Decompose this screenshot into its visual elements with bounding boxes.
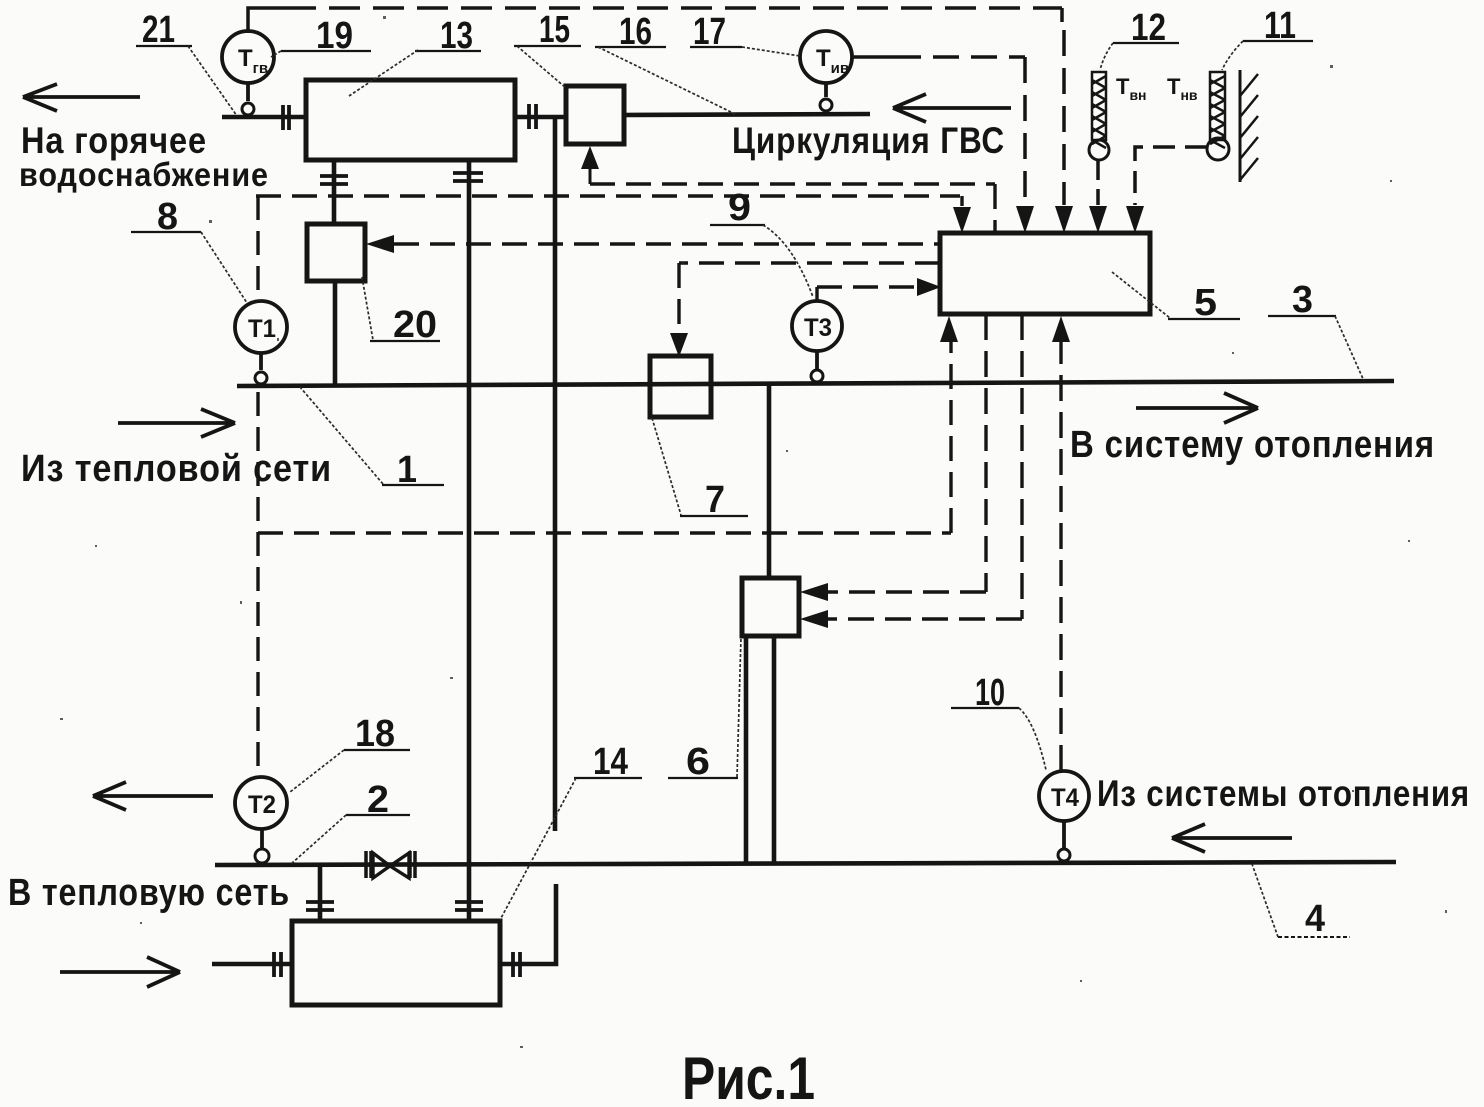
wire DHW pipe left segment — [222, 115, 307, 120]
flow arrow from heating system — [1172, 824, 1292, 852]
label 7 — [652, 418, 748, 521]
sensor Tgv (21) circle — [222, 31, 274, 83]
sensor T3 (9) circle — [792, 301, 842, 351]
flow arrow to heating network — [93, 782, 213, 810]
flange on box13 right drop — [453, 173, 483, 181]
label 6 — [668, 637, 741, 783]
wire Tiv signal drop to controller — [1023, 57, 1027, 205]
label 8 — [131, 196, 247, 303]
label 21 — [136, 9, 237, 116]
valve 6 — [742, 578, 799, 636]
sensor T2 (18) circle — [235, 777, 287, 829]
svg-text:Из системы отопления: Из системы отопления — [1097, 773, 1470, 814]
wire sensors T1/T2 riser — [256, 196, 259, 775]
sensor T4 pipe node — [1058, 849, 1070, 861]
wire return pipe 2-4 — [215, 862, 1396, 865]
wire box14 left port — [212, 962, 292, 967]
sensor T3 stem — [815, 351, 819, 369]
svg-text:18: 18 — [355, 713, 395, 755]
sensor Tgv stem — [246, 83, 250, 101]
wire valve6 bottom left leg to pipe 4 — [744, 636, 749, 864]
flow arrow to heating system — [1136, 393, 1258, 423]
wire pressure tap run (lower) to controller — [258, 341, 951, 533]
sensor Tiv (17) circle — [800, 31, 852, 83]
sensor T1 pipe node — [255, 372, 267, 384]
flange on DHW pipe before valve15 — [529, 104, 536, 129]
sensor T4 stem — [1062, 821, 1066, 849]
sensor T2 stem — [260, 829, 264, 849]
wire T1/T2 signal run to controller — [256, 196, 962, 206]
label 19 — [271, 15, 371, 57]
svg-text:В систему отопления: В систему отопления — [1070, 424, 1435, 466]
sensor labels inside circles — [238, 45, 1198, 819]
label 2 — [291, 779, 410, 864]
wire Tgv signal drop to controller — [1062, 8, 1064, 205]
label 18 — [290, 713, 410, 792]
wire valve15 control run — [590, 182, 995, 185]
thermometer 11 bulb — [1207, 138, 1229, 160]
label 1 — [300, 387, 444, 491]
label 4 — [1252, 864, 1350, 940]
wire sensor T3 to controller — [817, 287, 916, 301]
svg-text:Т4: Т4 — [1051, 784, 1079, 812]
label 5 — [1112, 272, 1240, 324]
thermometer 12 body (Tvn) — [1092, 72, 1106, 148]
wire controller to valve 6 upper — [828, 314, 986, 592]
wire thermometer 12 to controller — [1096, 160, 1100, 205]
text На горячее водоснабжение — [19, 120, 269, 193]
arrow into controller bottom from T4 — [1052, 316, 1070, 342]
sensor T1 stem — [259, 353, 263, 370]
valve on return pipe 2 — [366, 851, 415, 878]
arrow into valve 6 upper — [800, 583, 828, 601]
label 9 — [710, 187, 813, 297]
label 20 — [362, 277, 440, 346]
svg-text:Из тепловой сети: Из тепловой сети — [21, 448, 332, 490]
svg-text:9: 9 — [728, 187, 751, 229]
label 3 — [1268, 279, 1364, 381]
wire sensor Tgv to controller top (corner) — [248, 8, 285, 33]
svg-text:20: 20 — [393, 304, 437, 346]
svg-text:Циркуляция ГВС: Циркуляция ГВС — [732, 120, 1005, 161]
flange on box14 left port — [274, 952, 281, 977]
label 11 — [1222, 5, 1313, 70]
svg-text:14: 14 — [593, 741, 628, 783]
flow arrow DHW circulation — [893, 94, 1011, 122]
arrow into valve 20 (control) — [366, 235, 394, 253]
wire thermometer 11 to controller — [1135, 147, 1207, 205]
valve 15 — [566, 86, 624, 144]
svg-text:15: 15 — [539, 9, 570, 51]
svg-text:4: 4 — [1305, 898, 1325, 940]
label 12 — [1100, 7, 1179, 70]
arrow into controller bottom (lower run) — [940, 316, 958, 342]
flow arrow cold water inlet — [60, 957, 180, 987]
sensor Tiv stem — [824, 83, 828, 97]
wire valve15 control drop into controller — [993, 184, 996, 233]
number labels with underlines and leaders — [131, 5, 1364, 940]
wire DHW circulation pipe — [623, 114, 870, 115]
sensor T1 (8) circle — [235, 301, 287, 353]
valve 20 — [307, 224, 365, 281]
label 10 — [951, 672, 1046, 770]
sensor Tgv pipe node — [242, 103, 254, 115]
wire box13 bottom-left port to valve 20 — [332, 160, 337, 224]
wire pipe1 junction down to valve 6 top — [767, 384, 772, 578]
arrow into valve 15 (control) — [581, 146, 599, 169]
heat exchanger 13 — [306, 80, 515, 160]
wire circulation riser to box14 — [500, 117, 556, 964]
arrow into controller from thermometer 12 — [1089, 206, 1107, 233]
flange on box13 left drop — [320, 176, 348, 184]
heat exchanger 14 — [292, 921, 500, 1005]
flange above box14 right inlet — [455, 902, 483, 910]
sensor T2 pipe node — [255, 849, 269, 863]
flow arrow from heating network — [118, 409, 235, 437]
arrow into controller from thermometer 11 — [1126, 206, 1144, 233]
wire controller to valve 7 — [679, 263, 940, 332]
svg-text:Т1: Т1 — [248, 315, 276, 343]
label 17 — [690, 11, 800, 56]
svg-text:Т3: Т3 — [804, 314, 832, 342]
svg-text:3: 3 — [1292, 279, 1313, 321]
wire DHW pipe between box13 and box15 — [514, 115, 567, 120]
wire box13 bottom-right port down to heat exchanger 14 — [467, 160, 472, 921]
thermometer 12 bulb — [1089, 140, 1109, 160]
wire valve6 bottom right leg to pipe 4 — [772, 636, 777, 864]
svg-text:В тепловую сеть: В тепловую сеть — [8, 872, 290, 914]
wire supply pipe 1-3 — [237, 381, 1394, 386]
wire valve20 bottom to pipe 1 — [333, 281, 338, 386]
wire controller to valve 20 — [394, 242, 940, 245]
thermometer 11 body (Tnv) — [1210, 72, 1225, 148]
wall with hatching — [1240, 70, 1258, 182]
svg-text:Т2: Т2 — [248, 791, 276, 819]
wire Tgv signal top dashed run — [285, 6, 1062, 10]
svg-text:6: 6 — [686, 741, 710, 783]
sensor T4 (10) circle — [1039, 771, 1089, 821]
arrow into controller from T3 — [917, 278, 941, 296]
label 14 — [500, 741, 642, 920]
arrow into valve 6 lower — [800, 610, 828, 628]
svg-text:21: 21 — [142, 9, 175, 51]
svg-text:5: 5 — [1194, 282, 1217, 324]
sensor Tiv pipe node — [820, 99, 832, 111]
arrow into controller from Tgv — [1055, 206, 1073, 233]
arrow into valve 7 (control) — [670, 333, 688, 357]
arrow into controller from Tiv — [1016, 206, 1034, 233]
flange above box14 left inlet — [306, 902, 334, 910]
arrow into controller from T1/T2 — [953, 207, 971, 233]
wire valve15 control stem — [589, 168, 592, 184]
wire pipe2 tap down to box14 top-left — [318, 865, 323, 921]
wire sensor T4 to controller — [1059, 341, 1062, 771]
svg-text:водоснабжение: водоснабжение — [19, 156, 269, 193]
label 13 — [349, 15, 481, 96]
flange on box14 right port — [513, 952, 520, 977]
wire controller to valve 6 lower — [828, 314, 1022, 619]
flange on DHW pipe before box13 — [283, 105, 289, 130]
wire sensor Tiv to controller (horizontal) — [852, 55, 895, 59]
controller 5 — [940, 233, 1150, 314]
sensor T3 pipe node — [811, 370, 823, 382]
label 15 — [514, 9, 581, 88]
svg-text:Рис.1: Рис.1 — [682, 1045, 815, 1107]
svg-text:7: 7 — [705, 479, 725, 521]
svg-text:На горячее: На горячее — [21, 120, 207, 161]
flow arrow DHW out (top left) — [23, 84, 140, 111]
label 16 — [595, 11, 735, 114]
valve 7 — [650, 356, 711, 417]
